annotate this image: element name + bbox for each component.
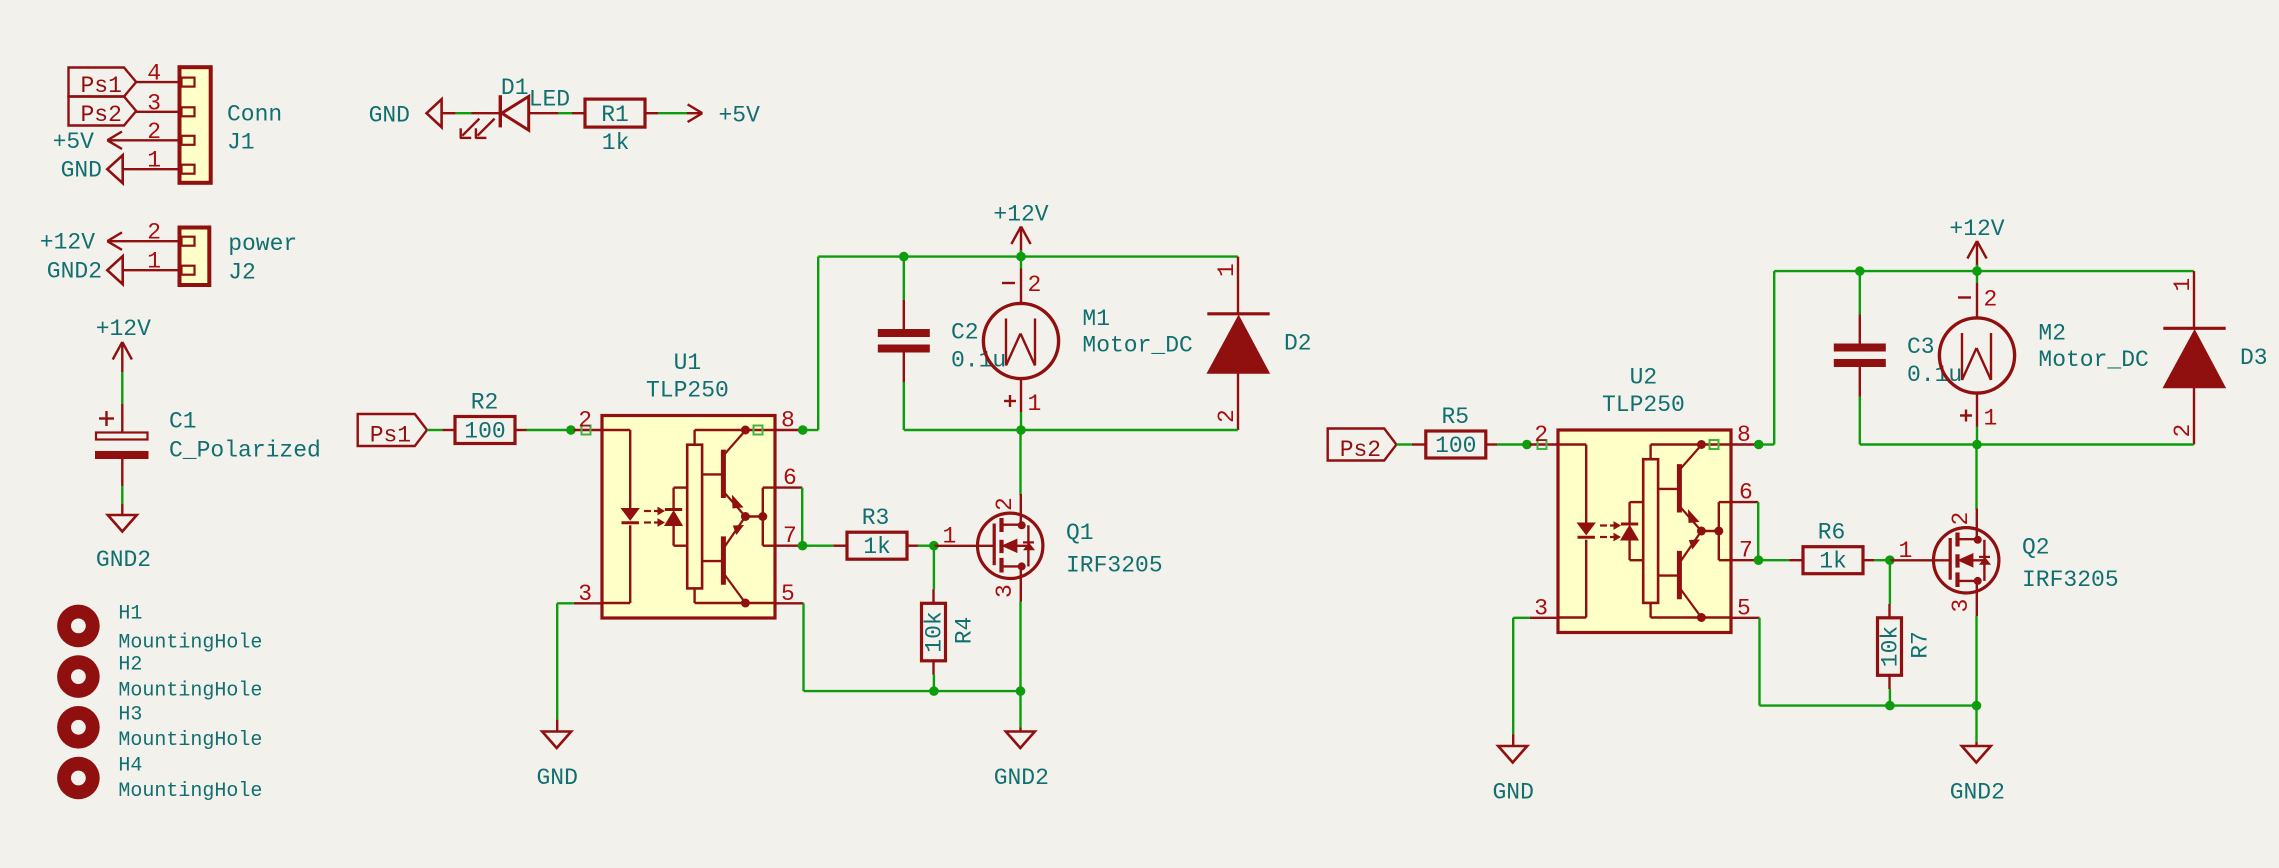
- svg-text:1: 1: [147, 249, 161, 275]
- junction at U2 pin2: [1522, 440, 1532, 450]
- motor M1 minus sign: [1002, 282, 1015, 284]
- motor M1 Motor_DC: [983, 303, 1058, 378]
- junction bottom rail at M2: [1972, 440, 1982, 450]
- svg-text:1: 1: [1984, 406, 1998, 432]
- wire U1 pin3 to GND: [557, 603, 574, 719]
- svg-text:1k: 1k: [1819, 549, 1847, 575]
- wire rail to Q2 drain: [1975, 445, 1977, 510]
- power symbol GND (U2): [1498, 734, 1527, 762]
- pin 3 of U1: [574, 602, 602, 604]
- junction at U2 pin8: [1754, 440, 1764, 450]
- wire R2 to U1 pin2: [527, 429, 574, 431]
- pin 3 of U2: [1530, 617, 1558, 619]
- diode D1 anode pin: [529, 112, 558, 114]
- power symbol GND (U1): [542, 720, 571, 748]
- svg-text:IRF3205: IRF3205: [2022, 567, 2119, 593]
- svg-text:+5V: +5V: [53, 129, 95, 155]
- svg-text:D3: D3: [2240, 345, 2268, 371]
- wire pin6 to pin7: [801, 488, 803, 546]
- wire C3 to bottom rail: [1859, 397, 1861, 445]
- svg-text:MountingHole: MountingHole: [118, 631, 262, 654]
- resistor R7 pin top: [1888, 604, 1890, 618]
- wire motor bottom rail: [1860, 443, 2194, 445]
- svg-text:2: 2: [1948, 512, 1974, 526]
- pin 2 of U2: [1530, 443, 1558, 445]
- motor M2 pin 1: [1976, 393, 1978, 444]
- op-amp U2 TLP250 optocoupler: [1558, 430, 1731, 633]
- wire rail to C2: [903, 257, 905, 300]
- svg-text:+5V: +5V: [719, 102, 761, 128]
- junction rail at C3: [1855, 266, 1865, 276]
- svg-text:TLP250: TLP250: [1602, 392, 1685, 418]
- motor M2 minus sign: [1958, 296, 1971, 298]
- connector J1 body: [180, 67, 211, 183]
- motor M2 Motor_DC: [1939, 318, 2014, 393]
- svg-text:C2: C2: [951, 320, 979, 346]
- svg-text:Q1: Q1: [1066, 520, 1094, 546]
- junction source rail at Q1: [1016, 686, 1026, 696]
- LED D1: [460, 95, 529, 138]
- svg-text:2: 2: [147, 220, 161, 246]
- svg-text:10k: 10k: [922, 611, 948, 652]
- svg-text:2: 2: [1984, 287, 1998, 313]
- wire C1 to GND2: [121, 486, 123, 504]
- resistor R5 pin right: [1486, 443, 1498, 445]
- svg-text:Conn: Conn: [227, 101, 282, 127]
- junction source rail at Q2: [1972, 701, 1982, 711]
- svg-text:3: 3: [1948, 599, 1974, 613]
- power symbol +12V (C1): [113, 342, 132, 372]
- resistor R7 pin bottom: [1888, 675, 1890, 689]
- diode D3 pin 1: [2193, 271, 2195, 327]
- wire Ps1 to R2: [427, 429, 442, 431]
- pin 7 of U2: [1731, 559, 1759, 561]
- wire pin3 J1: [136, 111, 179, 113]
- svg-text:J2: J2: [228, 260, 256, 286]
- svg-text:GND: GND: [61, 157, 102, 183]
- transistor Q2 IRF3205: [1890, 509, 1999, 617]
- junction at U1 pin7: [798, 541, 808, 551]
- pin 8 of U2: [1731, 443, 1759, 445]
- resistor R2: [455, 417, 515, 444]
- pin 2 of U1: [574, 429, 602, 431]
- svg-text:C_Polarized: C_Polarized: [169, 438, 321, 464]
- svg-text:H1: H1: [118, 603, 142, 626]
- svg-text:R1: R1: [601, 102, 629, 128]
- svg-text:M2: M2: [2038, 321, 2066, 347]
- power symbol GND2 (Q2): [1962, 742, 1991, 763]
- diode D1 cathode pin: [472, 112, 501, 114]
- diode D3 pin 2: [2193, 388, 2195, 445]
- wire source rail to GND2: [1019, 691, 1021, 727]
- capacitor C3: [1834, 344, 1886, 368]
- svg-text:IRF3205: IRF3205: [1066, 553, 1163, 579]
- capacitor C2: [878, 329, 930, 353]
- wire pin8 riser: [803, 257, 819, 430]
- resistor R1: [585, 99, 645, 127]
- svg-text:R6: R6: [1818, 520, 1846, 546]
- svg-text:GND: GND: [536, 765, 577, 791]
- junction source rail at R4: [929, 686, 939, 696]
- wire Q1 source down: [1019, 602, 1021, 692]
- wire pin2 J2: [107, 240, 179, 242]
- wire pin7 to R6: [1759, 559, 1790, 561]
- svg-text:2: 2: [1214, 409, 1240, 423]
- power symbol GND (J1 pin1): [107, 155, 122, 183]
- resistor R4 pin top: [932, 590, 934, 604]
- resistor R2 pin left: [442, 429, 455, 431]
- wire Ps2 to R5: [1396, 443, 1411, 445]
- svg-text:R5: R5: [1441, 404, 1469, 430]
- junction rail at M2: [1972, 266, 1982, 276]
- capacitor C2 pin bottom: [903, 353, 905, 383]
- resistor R6 pin right: [1863, 559, 1874, 561]
- svg-text:GND: GND: [1492, 780, 1533, 806]
- svg-text:1k: 1k: [863, 534, 891, 560]
- svg-text:Ps2: Ps2: [81, 102, 122, 128]
- power symbol +12V (M1): [1011, 227, 1030, 252]
- diode D2 pin 2: [1237, 373, 1239, 430]
- svg-text:100: 100: [1435, 433, 1476, 459]
- capacitor C2 pin top: [903, 300, 905, 329]
- svg-text:1: 1: [2170, 278, 2196, 292]
- svg-text:TLP250: TLP250: [646, 378, 729, 404]
- wire rail to Q1 drain: [1019, 430, 1021, 495]
- svg-text:C3: C3: [1907, 334, 1935, 360]
- wire R3 to gate: [918, 545, 934, 547]
- junction source rail at R7: [1885, 701, 1895, 711]
- wire source rail to GND2: [1975, 706, 1977, 742]
- wire pin2 J1: [107, 139, 179, 141]
- pin 7 of U1: [775, 545, 803, 547]
- wire R7 to source rail: [1889, 689, 1891, 706]
- wire gate to R4: [933, 546, 935, 590]
- junction rail at C2: [899, 252, 909, 262]
- wire gate to R7: [1889, 560, 1891, 604]
- wire Q2 source down: [1975, 616, 1977, 706]
- svg-text:D1: D1: [501, 75, 529, 101]
- diode D2 pin 1: [1237, 257, 1239, 313]
- svg-text:U1: U1: [674, 350, 702, 376]
- power symbol GND2 (Q1): [1006, 728, 1035, 749]
- svg-text:power: power: [228, 231, 297, 257]
- wire pin8 riser: [1759, 271, 1775, 444]
- pin 6 of U1: [775, 486, 802, 488]
- svg-text:GND2: GND2: [96, 547, 151, 573]
- power symbol +5V (J1 pin2): [107, 132, 122, 150]
- capacitor C1 pin: [121, 404, 123, 433]
- power symbol GND2 (C1): [108, 504, 137, 532]
- wire pin1 J2: [123, 269, 180, 271]
- svg-text:R2: R2: [471, 390, 499, 416]
- wire U2 pin3 to GND: [1513, 618, 1530, 734]
- capacitor C1 plus sign: [99, 411, 114, 426]
- svg-text:GND2: GND2: [1950, 780, 2005, 806]
- resistor R3: [847, 532, 907, 559]
- svg-text:3: 3: [992, 584, 1018, 598]
- svg-text:100: 100: [464, 418, 505, 444]
- wire +12V rail: [1774, 270, 2194, 272]
- wire R6 to gate: [1874, 559, 1890, 561]
- svg-text:Ps2: Ps2: [1340, 437, 1381, 463]
- wire C2 to bottom rail: [903, 382, 905, 430]
- svg-text:+12V: +12V: [40, 229, 95, 255]
- svg-text:2: 2: [992, 497, 1018, 511]
- svg-text:GND2: GND2: [47, 258, 102, 284]
- dangling marker at U2 pin2: [1538, 440, 1547, 449]
- svg-text:Q2: Q2: [2022, 535, 2050, 561]
- power symbol GND2 (J2 pin1): [107, 256, 122, 284]
- mounting hole H4: [57, 757, 100, 800]
- svg-text:M1: M1: [1082, 306, 1110, 332]
- svg-text:H3: H3: [118, 703, 142, 726]
- wire +12V to C1: [121, 372, 123, 404]
- svg-text:2: 2: [1028, 272, 1042, 298]
- wire GND to D1: [442, 112, 472, 114]
- motor M2 plus sign: [1960, 410, 1972, 422]
- junction at gate: [1885, 555, 1895, 565]
- pin 5 of U1: [775, 602, 804, 604]
- mounting hole H1: [57, 605, 100, 648]
- svg-text:MountingHole: MountingHole: [118, 729, 262, 752]
- dangling marker at U1 pin2: [582, 426, 591, 435]
- wire +12V stem: [1976, 265, 1978, 272]
- svg-text:2: 2: [2170, 424, 2196, 438]
- svg-text:R3: R3: [862, 505, 890, 531]
- svg-text:+12V: +12V: [1949, 216, 2004, 242]
- svg-text:Ps1: Ps1: [370, 423, 411, 449]
- transistor Q1 IRF3205: [934, 494, 1043, 602]
- svg-text:10k: 10k: [1878, 626, 1904, 667]
- svg-text:4: 4: [147, 61, 161, 87]
- power symbol +12V (M2): [1967, 241, 1986, 266]
- pin 6 of U2: [1731, 501, 1758, 503]
- wire rail to C3: [1859, 271, 1861, 314]
- junction at U1 pin8: [798, 425, 808, 435]
- wire source rail: [1760, 704, 1977, 706]
- mounting hole H3: [57, 706, 100, 749]
- wire pin5 riser: [1758, 618, 1760, 706]
- svg-text:MountingHole: MountingHole: [118, 679, 262, 702]
- power symbol +5V (D1 row): [687, 104, 702, 122]
- junction at U1 pin2: [566, 425, 576, 435]
- motor M1 plus sign: [1004, 395, 1016, 407]
- wire +12V stem: [1020, 250, 1022, 257]
- wire pin5 riser: [802, 603, 804, 691]
- wire D1 to R1: [558, 112, 572, 114]
- dangling marker inside U2 pin8: [1710, 440, 1719, 449]
- resistor R3 pin right: [907, 545, 918, 547]
- svg-text:3: 3: [147, 90, 161, 116]
- motor M1 pin 1: [1020, 379, 1022, 430]
- svg-text:2: 2: [578, 408, 592, 434]
- svg-text:D2: D2: [1284, 331, 1312, 357]
- wire +12V rail: [818, 255, 1238, 257]
- motor M2 pin 2: [1976, 271, 1978, 318]
- motor M1 pin 2: [1020, 257, 1022, 304]
- svg-text:LED: LED: [529, 87, 570, 113]
- resistor R5 pin left: [1412, 443, 1426, 445]
- power symbol +12V (J2 pin2): [107, 232, 122, 250]
- power symbol GND (D1): [427, 99, 442, 127]
- capacitor C3 pin bottom: [1859, 367, 1861, 397]
- wire R5 to U2 pin2: [1497, 443, 1530, 445]
- svg-text:Motor_DC: Motor_DC: [1082, 333, 1192, 359]
- svg-text:+12V: +12V: [993, 202, 1048, 228]
- svg-text:MountingHole: MountingHole: [118, 780, 262, 803]
- svg-text:H2: H2: [118, 654, 142, 677]
- svg-text:Ps1: Ps1: [81, 73, 122, 99]
- svg-text:U2: U2: [1630, 365, 1658, 391]
- svg-text:R7: R7: [1908, 631, 1934, 659]
- svg-text:J1: J1: [227, 130, 255, 156]
- junction rail at M1: [1016, 252, 1026, 262]
- dangling marker inside U1 pin8: [754, 426, 763, 435]
- svg-text:H4: H4: [118, 755, 142, 778]
- resistor R1 pin right: [645, 112, 658, 114]
- svg-text:1k: 1k: [602, 130, 630, 156]
- pin 5 of U2: [1731, 617, 1760, 619]
- svg-text:Motor_DC: Motor_DC: [2038, 347, 2148, 373]
- diode D3: [2163, 328, 2225, 387]
- junction at U2 pin7: [1754, 555, 1764, 565]
- capacitor C1 pin lower: [121, 459, 123, 486]
- wire R1 to +5V: [658, 112, 687, 114]
- capacitor C1: [95, 433, 149, 460]
- connector J2 body: [180, 228, 210, 286]
- svg-text:1: 1: [147, 148, 161, 174]
- resistor R4: [922, 603, 946, 661]
- pin 8 of U1: [775, 429, 803, 431]
- resistor R7: [1878, 618, 1902, 676]
- hierarchical label Ps2 (J1): [69, 97, 137, 129]
- op-amp U1 TLP250 optocoupler: [602, 416, 775, 619]
- wire motor bottom rail: [904, 429, 1238, 431]
- mounting hole H2: [57, 655, 100, 698]
- wire pin4 J1: [136, 81, 179, 83]
- wire pin6 to pin7: [1757, 502, 1759, 560]
- resistor R2 pin right: [515, 429, 527, 431]
- resistor R6: [1803, 547, 1863, 574]
- diode D2: [1207, 314, 1269, 373]
- svg-text:C1: C1: [169, 409, 197, 435]
- junction bottom rail at M1: [1016, 425, 1026, 435]
- junction at gate: [929, 541, 939, 551]
- hierarchical label Ps1: [358, 414, 427, 449]
- resistor R6 pin left: [1789, 559, 1803, 561]
- hierarchical label Ps2: [1328, 429, 1397, 464]
- svg-text:+12V: +12V: [96, 316, 151, 342]
- hierarchical label Ps1 (J1): [69, 68, 137, 100]
- wire pin1 J1: [123, 168, 180, 170]
- svg-text:2: 2: [147, 119, 161, 145]
- svg-text:2: 2: [1534, 422, 1548, 448]
- wire pin7 to R3: [803, 545, 834, 547]
- svg-text:1: 1: [1028, 391, 1042, 417]
- resistor R4 pin bottom: [932, 661, 934, 675]
- wire source rail: [804, 690, 1021, 692]
- svg-text:GND: GND: [369, 102, 410, 128]
- wire R4 to source rail: [933, 675, 935, 692]
- resistor R5: [1426, 431, 1486, 458]
- svg-text:1: 1: [1214, 263, 1240, 277]
- svg-text:R4: R4: [952, 617, 978, 645]
- svg-text:GND2: GND2: [994, 765, 1049, 791]
- resistor R3 pin left: [833, 545, 847, 547]
- resistor R1 pin left: [572, 112, 585, 114]
- capacitor C3 pin top: [1859, 315, 1861, 344]
